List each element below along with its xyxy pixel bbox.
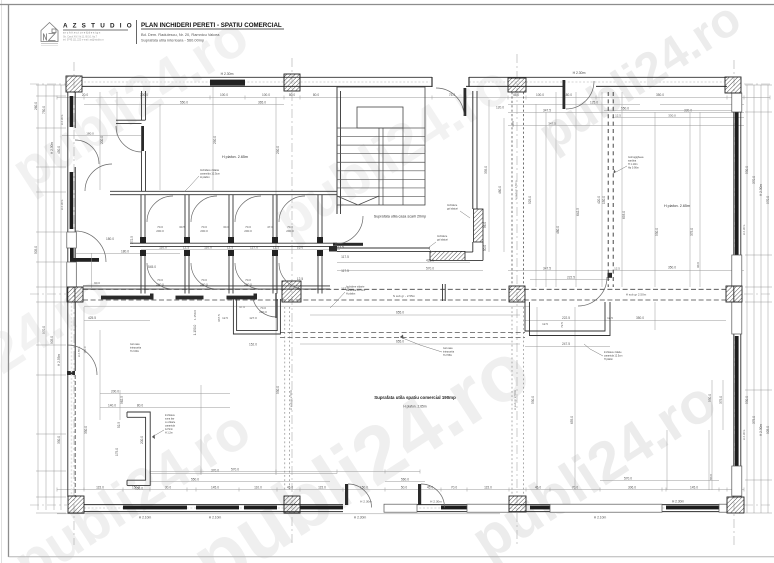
- svg-text:117.5: 117.5: [341, 255, 349, 259]
- svg-text:H 2.30m: H 2.30m: [60, 114, 64, 125]
- svg-text:642.5: 642.5: [576, 208, 580, 216]
- dashed wall on C gridline upper: [511, 92, 513, 286]
- svg-text:47.0: 47.0: [267, 225, 273, 229]
- svg-text:80.0: 80.0: [709, 474, 713, 480]
- svg-text:H 2.10m: H 2.10m: [209, 516, 222, 520]
- svg-text:222.5: 222.5: [567, 275, 575, 279]
- dashed wall on C gridline lower: [511, 307, 513, 496]
- svg-text:PLAN INCHIDERI PERETI - SPATIU: PLAN INCHIDERI PERETI - SPATIU COMERCIAL: [141, 22, 282, 29]
- svg-text:350.0: 350.0: [668, 266, 676, 270]
- stair room right wall: [472, 91, 474, 209]
- right wall pilasters: [732, 93, 742, 112]
- svg-text:480.0: 480.0: [556, 226, 560, 234]
- svg-text:350.0: 350.0: [656, 93, 664, 97]
- interior wall L top-left room: [141, 91, 143, 120]
- svg-text:306.0: 306.0: [628, 486, 636, 490]
- svg-text:H 2.30m: H 2.30m: [430, 500, 442, 504]
- top exterior wall inner line: [82, 85, 432, 87]
- column D1 top-right: [725, 77, 741, 93]
- interior vertical dim lines top-left room: [99, 92, 101, 190]
- svg-text:N sub gr - 2.55m: N sub gr - 2.55m: [393, 294, 416, 298]
- svg-text:Suprafata utila interioara - 5: Suprafata utila interioara - 560.00mp: [141, 38, 204, 43]
- left wall lower jamb cap: [67, 371, 75, 375]
- bottom exterior wall outer line: [84, 511, 343, 513]
- interior stub wall left-mid: [70, 258, 99, 262]
- gridline horizontal row1 stubs: [30, 83, 68, 85]
- svg-text:47.0: 47.0: [239, 305, 245, 309]
- left door 1 arc: [75, 140, 99, 164]
- interior wall lower segment: [141, 151, 143, 191]
- top wall end caps: [431, 77, 433, 87]
- svg-text:180.0: 180.0: [86, 132, 94, 136]
- svg-text:H 2.30m: H 2.30m: [742, 429, 746, 440]
- top dimension row 1: [57, 97, 770, 99]
- corridor door arc: [578, 277, 607, 306]
- beam stub crossing corridor: [442, 284, 444, 301]
- svg-text:530.0: 530.0: [276, 386, 280, 394]
- bottom wall windows dark bands: [123, 506, 187, 510]
- gridline horizontal row3 stubs: [30, 504, 67, 506]
- svg-text:115.0: 115.0: [484, 486, 492, 490]
- left door 3 arc: [67, 345, 97, 375]
- svg-text:Bd. Dem. Radulescu, Nr. 20, Ra: Bd. Dem. Radulescu, Nr. 20, Ramnicu Valc…: [141, 32, 220, 37]
- svg-text:90.0: 90.0: [94, 281, 100, 285]
- column D2 mid-right: [726, 286, 742, 302]
- svg-text:560.0: 560.0: [401, 478, 409, 482]
- column B1 top: [284, 74, 300, 91]
- dashed pair below corridor B gridline: [284, 307, 286, 490]
- cabin door arcs row1: [147, 196, 173, 222]
- svg-text:145.0: 145.0: [690, 486, 698, 490]
- left wall texture: [71, 302, 73, 497]
- svg-text:110.0: 110.0: [204, 246, 212, 250]
- left exterior wall lines: [67, 92, 69, 497]
- stair room bottom-left corner: [329, 246, 337, 252]
- column A2 mid-left: [67, 287, 83, 302]
- svg-text:200.0: 200.0: [244, 229, 252, 233]
- svg-text:H plafon: H plafon: [346, 293, 356, 296]
- svg-text:12.5: 12.5: [542, 322, 548, 326]
- svg-text:H 2.30m: H 2.30m: [60, 199, 64, 210]
- svg-text:H 2.30m: H 2.30m: [50, 142, 54, 154]
- svg-text:1.150.0: 1.150.0: [193, 310, 197, 320]
- svg-text:150.0: 150.0: [360, 486, 368, 490]
- wall A door arc: [85, 164, 112, 191]
- svg-text:H plafon. 2.65m: H plafon. 2.65m: [664, 204, 690, 208]
- svg-text:545.0: 545.0: [148, 265, 156, 269]
- svg-text:H 2.10m: H 2.10m: [139, 516, 152, 520]
- corridor bottom wall door-stub segments: [101, 296, 150, 300]
- svg-text:530.0: 530.0: [745, 166, 749, 174]
- stair room hatch band right: [474, 209, 484, 242]
- bottom wall sill pilasters: [384, 504, 417, 512]
- interior wall A horizontal: [110, 190, 337, 192]
- gridline axis A vertical: [73, 62, 75, 545]
- svg-text:100.0: 100.0: [220, 93, 228, 97]
- svg-text:45.0: 45.0: [535, 486, 541, 490]
- cabin door arcs row2: [147, 263, 173, 289]
- interior door arc x142: [116, 126, 142, 152]
- top dimension row 3: [508, 112, 640, 114]
- C-bracket dims: [100, 393, 230, 395]
- svg-text:gol alaturi: gol alaturi: [447, 208, 458, 211]
- svg-text:750.0: 750.0: [42, 106, 46, 114]
- svg-text:H 2.55m: H 2.55m: [443, 354, 452, 357]
- svg-text:905.0: 905.0: [50, 336, 54, 344]
- staircase stringers: [378, 128, 380, 205]
- cabin partitions bottom row: [140, 250, 142, 294]
- svg-text:125.0: 125.0: [590, 101, 598, 105]
- svg-text:180.0: 180.0: [106, 237, 114, 241]
- svg-text:347.5: 347.5: [543, 109, 551, 113]
- cabin door jambs: [140, 237, 146, 243]
- interior wall C horizontal: [83, 285, 330, 287]
- bottom dimension row 550: [150, 481, 330, 483]
- svg-text:530.0: 530.0: [655, 228, 659, 236]
- gridline axis C vertical: [516, 54, 518, 545]
- svg-text:330.0: 330.0: [84, 426, 88, 434]
- svg-text:H 2.55m: H 2.55m: [57, 354, 61, 366]
- note gol casa 2: [400, 337, 442, 352]
- svg-text:335.0: 335.0: [484, 166, 488, 174]
- svg-text:145.0: 145.0: [211, 486, 219, 490]
- svg-text:200.0: 200.0: [286, 229, 294, 233]
- svg-text:375.0: 375.0: [752, 416, 756, 424]
- bottom dimension row 570: [150, 471, 420, 473]
- svg-text:115.0: 115.0: [318, 486, 326, 490]
- corridor beam dashed line upper: [83, 288, 726, 290]
- extra dim verticals big space: [536, 307, 538, 490]
- svg-text:H sub gr 2.50m: H sub gr 2.50m: [513, 389, 517, 410]
- svg-text:347.5: 347.5: [548, 122, 556, 126]
- top exterior wall texture: [84, 81, 430, 83]
- svg-text:70.0: 70.0: [201, 278, 207, 282]
- svg-text:150.0: 150.0: [135, 487, 143, 491]
- right dimension column lines: [746, 85, 748, 513]
- stair door leaf: [333, 243, 363, 246]
- svg-text:120.0: 120.0: [496, 106, 504, 110]
- svg-text:480.0: 480.0: [498, 186, 502, 194]
- stair room hatch band bottom: [430, 251, 465, 260]
- svg-text:505.0: 505.0: [34, 246, 38, 254]
- svg-text:450.0: 450.0: [57, 146, 61, 154]
- svg-text:290.0: 290.0: [213, 136, 217, 144]
- svg-text:Suprafata utila casa scarii 20: Suprafata utila casa scarii 20mp: [374, 215, 426, 219]
- left wall window stub dark: [70, 248, 74, 258]
- svg-text:100.0: 100.0: [262, 93, 270, 97]
- svg-text:H sub gr 2.50m: H sub gr 2.50m: [626, 293, 647, 297]
- svg-text:30.0: 30.0: [223, 225, 229, 229]
- gridline horizontal row2 stubs: [30, 293, 66, 295]
- svg-text:222.5: 222.5: [562, 316, 570, 320]
- svg-text:H 2.30m: H 2.30m: [221, 72, 234, 76]
- svg-text:370.0: 370.0: [752, 176, 756, 184]
- right exterior wall lines: [733, 93, 735, 497]
- svg-text:655.0: 655.0: [396, 311, 404, 315]
- column B3 bottom: [284, 496, 300, 513]
- cabins dim texts row1: [141, 249, 340, 251]
- svg-text:655.0: 655.0: [570, 416, 574, 424]
- svg-text:350.0: 350.0: [636, 316, 644, 320]
- svg-text:16.0: 16.0: [297, 246, 303, 250]
- top wall window band: [210, 80, 245, 86]
- svg-text:12.5: 12.5: [297, 277, 303, 281]
- svg-text:70.0: 70.0: [157, 278, 163, 282]
- svg-text:gol alaturi: gol alaturi: [437, 239, 448, 242]
- svg-text:H plafon. 2.65m: H plafon. 2.65m: [222, 155, 248, 159]
- svg-text:tel: 0745.111.222 e-mail: az@: tel: 0745.111.222 e-mail: az@studio.ro: [63, 39, 104, 42]
- interior big space dim lines: [83, 307, 85, 490]
- svg-text:117.5: 117.5: [341, 269, 349, 273]
- svg-text:96.0: 96.0: [483, 222, 487, 228]
- corridor beam dashed line lower: [83, 299, 726, 301]
- svg-text:H plafon. 2.65m: H plafon. 2.65m: [403, 405, 427, 409]
- top wall door 2 leaf: [563, 80, 566, 109]
- top wall door 1 leaf: [464, 88, 467, 116]
- svg-text:140.0: 140.0: [108, 404, 116, 408]
- dims below stair: [337, 262, 470, 264]
- svg-text:200.0: 200.0: [100, 136, 104, 144]
- svg-text:152.0: 152.0: [249, 343, 257, 347]
- bottom exterior wall texture: [84, 507, 343, 509]
- svg-text:20.0: 20.0: [82, 93, 88, 97]
- interior wall B horizontal: [130, 242, 337, 244]
- svg-text:290.0: 290.0: [276, 146, 280, 154]
- U room below corridor: [233, 299, 280, 334]
- column C3 bottom: [509, 496, 526, 512]
- svg-text:370.0: 370.0: [211, 469, 219, 473]
- svg-text:100.0: 100.0: [536, 93, 544, 97]
- interior dim lines right room: [555, 92, 557, 287]
- svg-text:H 2.30m: H 2.30m: [742, 224, 746, 235]
- svg-text:110.0: 110.0: [159, 246, 167, 250]
- top exterior wall outer line: [82, 76, 432, 78]
- svg-text:H 2.30m: H 2.30m: [354, 516, 367, 520]
- left door 2 arc: [75, 231, 106, 262]
- svg-text:180.0: 180.0: [121, 250, 129, 254]
- svg-text:200.0: 200.0: [200, 229, 208, 233]
- svg-text:12.5: 12.5: [227, 246, 233, 250]
- staircase outline: [337, 87, 425, 205]
- bottom below-wall dim line: [57, 513, 500, 515]
- title divider: [136, 20, 138, 44]
- window label top: [604, 110, 740, 112]
- svg-text:H plafon: H plafon: [200, 175, 210, 179]
- svg-text:a r c h i t e c t u r e & d e: a r c h i t e c t u r e & d e s i g n: [63, 30, 101, 34]
- interior dim lines stair strip: [488, 100, 490, 252]
- U room door arc: [253, 299, 277, 317]
- svg-text:H 2.00m: H 2.00m: [130, 350, 139, 353]
- svg-text:570.0: 570.0: [426, 267, 434, 271]
- svg-text:365.0: 365.0: [258, 101, 266, 105]
- svg-text:970.0: 970.0: [42, 326, 46, 334]
- svg-text:115.0: 115.0: [96, 486, 104, 490]
- stair door arc: [335, 216, 363, 244]
- svg-text:H 2.30m: H 2.30m: [759, 424, 763, 436]
- svg-text:962.5: 962.5: [120, 396, 124, 404]
- svg-text:150.0: 150.0: [602, 196, 606, 204]
- svg-text:90.0: 90.0: [696, 262, 700, 268]
- U wall below column C: [525, 302, 605, 331]
- svg-text:530.0: 530.0: [708, 394, 712, 402]
- svg-text:45.0: 45.0: [513, 93, 519, 97]
- column C2 mid: [509, 286, 525, 302]
- gridline axis D vertical: [733, 60, 735, 545]
- svg-text:A Z S T U D I O: A Z S T U D I O: [63, 23, 133, 30]
- stair room left wall: [336, 87, 338, 214]
- svg-text:12.5: 12.5: [222, 316, 228, 320]
- svg-text:260.0: 260.0: [34, 102, 38, 110]
- svg-text:12.5: 12.5: [183, 246, 189, 250]
- svg-text:525.0: 525.0: [528, 196, 532, 204]
- column A3 bottom-left: [68, 496, 84, 513]
- svg-text:12.5: 12.5: [615, 114, 621, 118]
- top dimension row 2: [84, 104, 284, 106]
- svg-text:H plafon: H plafon: [604, 358, 614, 361]
- svg-text:12.5: 12.5: [273, 246, 279, 250]
- column D3 bottom-right: [727, 497, 744, 513]
- svg-text:347.5: 347.5: [543, 267, 551, 271]
- svg-text:Suprafata utila spatiu comerci: Suprafata utila spatiu comercial 190mp: [374, 395, 456, 400]
- top door 2 arc: [566, 81, 594, 109]
- stair room bottom wall: [337, 247, 430, 249]
- column A1 top-left: [66, 76, 82, 92]
- svg-text:50.0: 50.0: [483, 245, 487, 251]
- svg-text:247.5: 247.5: [562, 342, 570, 346]
- svg-text:693.0: 693.0: [622, 211, 626, 219]
- gridline axis B vertical: [291, 58, 293, 545]
- svg-text:330.0: 330.0: [57, 436, 61, 444]
- svg-text:200.0: 200.0: [111, 390, 119, 394]
- svg-text:375.0: 375.0: [690, 228, 694, 236]
- svg-text:375.0: 375.0: [719, 396, 723, 404]
- page border frame: [1, 0, 3, 563]
- dashed goal opening right room: [607, 92, 609, 287]
- svg-text:caramida 12.5cm: caramida 12.5cm: [200, 172, 220, 176]
- left wall pilasters: [67, 232, 77, 248]
- svg-text:H 2.30m: H 2.30m: [672, 500, 684, 504]
- stair room right wall lower: [472, 242, 474, 252]
- svg-text:H 2.30m: H 2.30m: [759, 184, 763, 196]
- svg-text:70.0: 70.0: [451, 486, 457, 490]
- column B2 mid: [282, 281, 301, 302]
- svg-text:530.0: 530.0: [745, 396, 749, 404]
- svg-text:127.0: 127.0: [249, 316, 257, 320]
- svg-text:420.0: 420.0: [597, 196, 601, 204]
- svg-text:H sub gr 2.50m: H sub gr 2.50m: [514, 180, 518, 200]
- svg-text:330.0: 330.0: [668, 114, 676, 118]
- svg-text:127.0: 127.0: [250, 246, 258, 250]
- svg-text:H 2.30m: H 2.30m: [573, 71, 586, 75]
- svg-text:175.0: 175.0: [115, 448, 119, 456]
- svg-text:70.0: 70.0: [245, 278, 251, 282]
- bottom wall door stub 2: [418, 484, 421, 505]
- svg-text:Hp 0.90m: Hp 0.90m: [628, 167, 639, 170]
- svg-text:80.0: 80.0: [137, 404, 143, 408]
- svg-text:H 2.10m: H 2.10m: [594, 516, 607, 520]
- svg-text:530.0: 530.0: [531, 396, 535, 404]
- svg-text:80.0: 80.0: [313, 93, 319, 97]
- svg-text:967.5: 967.5: [217, 314, 221, 322]
- svg-text:905.0: 905.0: [766, 426, 770, 434]
- svg-text:200.0: 200.0: [156, 229, 164, 233]
- secondary beam dashed pair: [280, 332, 525, 334]
- svg-text:52.5: 52.5: [117, 422, 121, 428]
- svg-text:80.0: 80.0: [289, 93, 295, 97]
- staircase direction V: [337, 196, 379, 205]
- svg-text:45.0: 45.0: [287, 486, 293, 490]
- left wall windows: [70, 96, 74, 127]
- svg-text:655.0: 655.0: [396, 340, 404, 344]
- staircase treads: [337, 127, 425, 129]
- bottom exterior wall inner line: [84, 504, 343, 506]
- bottom dimension row small: [57, 489, 744, 491]
- svg-text:Inchidere zidarie: Inchidere zidarie: [200, 168, 220, 172]
- svg-text:570.0: 570.0: [231, 468, 239, 472]
- staircase landing inner: [357, 107, 403, 128]
- corridor dim line 655: [84, 305, 530, 307]
- extra dim verticals right room: [535, 104, 537, 287]
- left dimension column lines: [37, 85, 39, 510]
- bottom wall door stub 1: [345, 484, 348, 505]
- interior door leaf x142: [141, 126, 144, 151]
- top door 1 arc: [436, 88, 464, 116]
- logo AZ STUDIO house: [41, 23, 58, 42]
- svg-text:12.5: 12.5: [614, 267, 620, 271]
- svg-text:425.5: 425.5: [88, 316, 96, 320]
- svg-text:30.5: 30.5: [179, 225, 185, 229]
- svg-text:550.0: 550.0: [180, 101, 188, 105]
- svg-text:970.0: 970.0: [766, 196, 770, 204]
- column C1 top: [508, 78, 526, 92]
- svg-text:1.150.0: 1.150.0: [193, 324, 197, 335]
- svg-text:72.5: 72.5: [560, 322, 564, 328]
- dim row 180.0 left-mid: [76, 253, 180, 255]
- svg-text:H 1.2m: H 1.2m: [165, 432, 173, 435]
- extra dim verticals top-left room: [116, 92, 118, 135]
- C-bracket bar wall: [127, 417, 146, 480]
- svg-text:200.0: 200.0: [140, 436, 144, 444]
- svg-text:550.0: 550.0: [191, 478, 199, 482]
- svg-text:50.0: 50.0: [401, 486, 407, 490]
- right wall windows: [735, 112, 739, 255]
- svg-text:570.0: 570.0: [624, 476, 632, 480]
- cabin partitions top row: [140, 195, 142, 243]
- svg-text:30.0: 30.0: [165, 486, 171, 490]
- svg-text:110.0: 110.0: [254, 486, 262, 490]
